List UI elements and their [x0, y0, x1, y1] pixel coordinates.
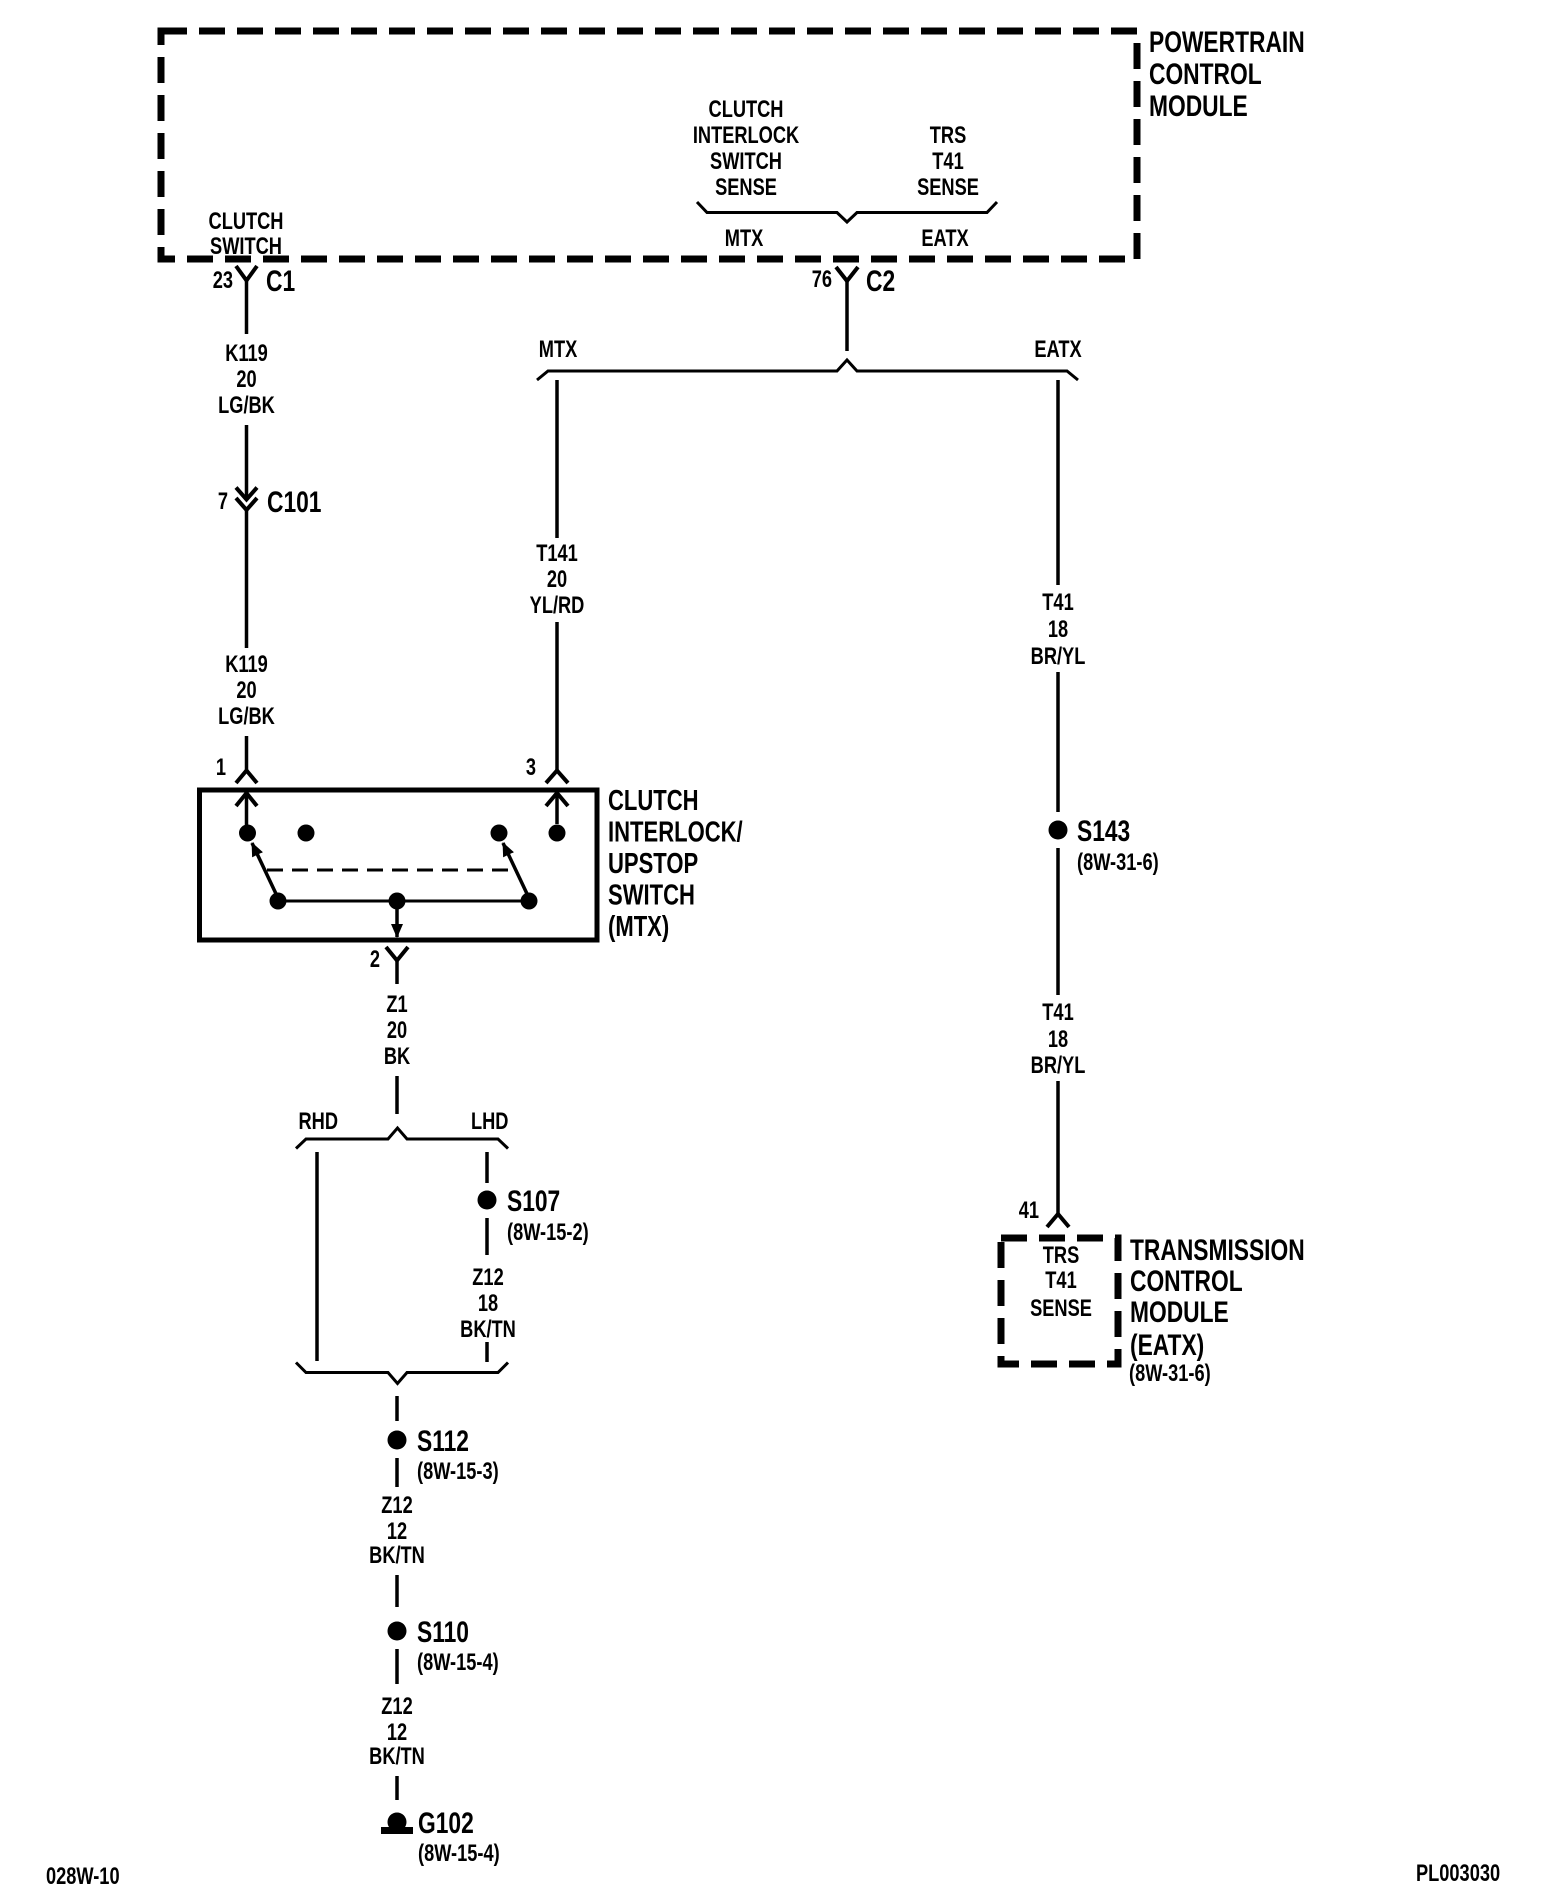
pin 3 female caret	[546, 771, 568, 784]
svg-text:BK/TN: BK/TN	[369, 1743, 425, 1770]
svg-text:(8W-15-2): (8W-15-2)	[507, 1219, 589, 1246]
svg-text:(MTX): (MTX)	[608, 911, 669, 943]
wire K119 to C101	[245, 425, 249, 500]
svg-text:1: 1	[216, 754, 226, 781]
svg-text:2: 2	[370, 946, 380, 973]
wiper arrow left	[252, 843, 278, 898]
wire label T141 20 YL/RD	[530, 540, 585, 619]
contact dot (right of center)	[491, 825, 508, 842]
svg-text:T141: T141	[536, 540, 578, 567]
splice S112	[388, 1431, 407, 1450]
wire pin 2 stem	[395, 961, 399, 985]
wire below S143	[1056, 848, 1060, 995]
svg-text:028W-10: 028W-10	[46, 1863, 120, 1890]
svg-text:K119: K119	[225, 340, 268, 367]
ground G102 symbol	[381, 1813, 413, 1832]
svg-text:20: 20	[236, 366, 256, 393]
svg-text:MODULE: MODULE	[1130, 1295, 1229, 1329]
svg-text:UPSTOP: UPSTOP	[608, 848, 698, 880]
pin 1 male caret inside box	[236, 793, 257, 806]
svg-text:Z12: Z12	[381, 1492, 412, 1519]
svg-text:C2: C2	[866, 264, 895, 298]
svg-text:76: 76	[812, 266, 832, 293]
svg-text:T41: T41	[932, 148, 964, 175]
contact dot pin3 side	[549, 825, 566, 842]
svg-text:(8W-31-6): (8W-31-6)	[1129, 1360, 1211, 1387]
svg-text:BK: BK	[384, 1043, 411, 1070]
wiper arrow right	[503, 843, 529, 898]
wire EATX branch upper	[1056, 380, 1060, 585]
svg-text:CONTROL: CONTROL	[1130, 1264, 1243, 1298]
svg-text:23: 23	[213, 267, 233, 294]
svg-text:LHD: LHD	[471, 1108, 508, 1135]
svg-text:3: 3	[526, 754, 536, 781]
rail junction dot center	[389, 893, 406, 910]
label POWERTRAIN CONTROL MODULE	[1149, 25, 1305, 123]
svg-text:Z12: Z12	[472, 1264, 503, 1291]
connector C2 fork	[836, 267, 858, 281]
pin 1 female caret	[236, 771, 257, 784]
svg-text:T41: T41	[1042, 999, 1074, 1026]
svg-text:12: 12	[387, 1719, 407, 1746]
svg-text:K119: K119	[225, 651, 268, 678]
wire below S110	[395, 1649, 399, 1684]
wire C1 stem	[245, 281, 249, 335]
svg-text:41: 41	[1019, 1197, 1039, 1224]
svg-text:BK/TN: BK/TN	[369, 1542, 425, 1569]
wire label T41 18 BR/YL (upper)	[1031, 589, 1086, 670]
splice S143	[1049, 821, 1068, 840]
svg-text:SWITCH: SWITCH	[210, 233, 282, 260]
module TRANSMISSION CONTROL MODULE dashed box	[1001, 1238, 1118, 1364]
svg-text:(8W-15-3): (8W-15-3)	[417, 1458, 499, 1485]
wire label Z12 12 BK/TN (upper)	[369, 1492, 425, 1569]
svg-text:MODULE: MODULE	[1149, 89, 1248, 123]
svg-text:LG/BK: LG/BK	[218, 392, 275, 419]
wire RHD branch	[315, 1152, 319, 1361]
output arrow down to pin 2	[395, 903, 399, 937]
label CLUTCH INTERLOCK SWITCH SENSE (PCM internal)	[693, 96, 800, 201]
wire pin 1 to contact	[245, 793, 249, 825]
svg-text:TRS: TRS	[1043, 1242, 1079, 1269]
component clutch interlock/upstop switch box	[200, 790, 598, 940]
svg-text:S110: S110	[417, 1615, 469, 1649]
svg-text:Z12: Z12	[381, 1693, 412, 1720]
svg-text:RHD: RHD	[299, 1108, 338, 1135]
label TRANSMISSION CONTROL MODULE (EATX)	[1130, 1233, 1305, 1362]
svg-text:EATX: EATX	[1034, 336, 1082, 363]
svg-text:S112: S112	[417, 1424, 469, 1458]
svg-text:EATX: EATX	[921, 225, 969, 252]
svg-text:BK/TN: BK/TN	[460, 1316, 516, 1343]
wire to TCM pin 41	[1056, 1081, 1060, 1214]
label CLUTCH SWITCH (PCM internal pin function)	[209, 208, 284, 260]
wire label T41 18 BR/YL (lower)	[1031, 999, 1086, 1079]
svg-text:PL003030: PL003030	[1416, 1860, 1500, 1887]
svg-text:(8W-31-6): (8W-31-6)	[1077, 849, 1159, 876]
svg-text:MTX: MTX	[725, 225, 764, 252]
wire Z1 to RHD/LHD split	[395, 1076, 399, 1114]
svg-text:18: 18	[478, 1290, 498, 1317]
wire MTX branch upper	[555, 380, 559, 538]
svg-text:INTERLOCK: INTERLOCK	[693, 122, 800, 149]
contact dot pin1 side	[239, 825, 256, 842]
connector C101 double chevron	[236, 488, 257, 511]
svg-text:POWERTRAIN: POWERTRAIN	[1149, 25, 1305, 59]
svg-text:BR/YL: BR/YL	[1031, 1052, 1086, 1079]
contact dot open (left-center)	[298, 825, 315, 842]
label TRS T41 SENSE (TCM internal)	[1030, 1242, 1092, 1322]
pin 2 fork below box	[386, 947, 408, 961]
wire label Z12 12 BK/TN (lower)	[369, 1693, 425, 1770]
svg-text:CLUTCH: CLUTCH	[608, 785, 699, 817]
wire MTX branch lower	[555, 622, 559, 771]
svg-text:MTX: MTX	[539, 336, 578, 363]
wire label Z12 18 BK/TN	[460, 1264, 516, 1343]
svg-text:G102: G102	[418, 1806, 474, 1840]
splice S107	[478, 1191, 497, 1210]
svg-text:12: 12	[387, 1518, 407, 1545]
wire pin 3 to contact	[555, 793, 559, 824]
svg-text:C101: C101	[267, 485, 322, 519]
svg-text:T41: T41	[1042, 589, 1074, 616]
svg-text:TRANSMISSION: TRANSMISSION	[1130, 1233, 1305, 1267]
pin 41 female caret	[1047, 1214, 1069, 1227]
svg-text:20: 20	[387, 1017, 407, 1044]
label CLUTCH INTERLOCK/ UPSTOP SWITCH (MTX)	[608, 785, 743, 943]
pin 3 male caret inside box	[546, 793, 568, 806]
svg-text:S107: S107	[507, 1184, 560, 1218]
module U1 POWERTRAIN CONTROL MODULE dashed box	[161, 31, 1137, 259]
label TRS T41 SENSE (PCM internal)	[917, 122, 979, 201]
switch common rail	[278, 900, 529, 903]
brace RHD/LHD merge	[296, 1363, 508, 1384]
wire below C101	[245, 510, 249, 648]
svg-text:LG/BK: LG/BK	[218, 703, 275, 730]
svg-text:20: 20	[236, 677, 256, 704]
svg-text:18: 18	[1048, 616, 1068, 643]
wire below S112	[395, 1458, 399, 1487]
splice S110	[388, 1622, 407, 1641]
svg-text:CLUTCH: CLUTCH	[209, 208, 284, 235]
mechanical coupling dashed line	[267, 869, 514, 872]
svg-text:SENSE: SENSE	[917, 174, 979, 201]
svg-text:SENSE: SENSE	[1030, 1295, 1092, 1322]
svg-text:C1: C1	[266, 264, 295, 298]
svg-text:(EATX): (EATX)	[1130, 1328, 1204, 1362]
svg-text:(8W-15-4): (8W-15-4)	[418, 1840, 500, 1867]
wire to S143	[1056, 672, 1060, 812]
wire label K119 20 LG/BK (upper)	[218, 340, 275, 419]
svg-text:BR/YL: BR/YL	[1031, 643, 1086, 670]
wire merge to S112	[395, 1396, 399, 1421]
svg-text:T41: T41	[1045, 1267, 1077, 1294]
wire LHD branch segment 1	[485, 1152, 489, 1183]
svg-text:18: 18	[1048, 1026, 1068, 1053]
svg-text:SWITCH: SWITCH	[710, 148, 782, 175]
brace MTX/EATX harness split	[537, 360, 1078, 380]
svg-text:CLUTCH: CLUTCH	[709, 96, 784, 123]
wire to S110	[395, 1575, 399, 1607]
svg-text:SWITCH: SWITCH	[608, 880, 695, 912]
wire C2 stem	[845, 281, 849, 351]
svg-text:TRS: TRS	[930, 122, 966, 149]
wire to switch pin 1	[245, 736, 249, 771]
rail junction dot right	[521, 893, 538, 910]
svg-text:CONTROL: CONTROL	[1149, 57, 1262, 91]
brace RHD/LHD split	[296, 1128, 508, 1149]
svg-text:INTERLOCK/: INTERLOCK/	[608, 817, 743, 849]
svg-text:SENSE: SENSE	[715, 174, 777, 201]
wire label Z1 20 BK	[384, 991, 411, 1070]
svg-text:20: 20	[547, 566, 567, 593]
wire LHD branch segment 2	[485, 1218, 489, 1255]
svg-text:S143: S143	[1077, 814, 1130, 848]
wire label K119 20 LG/BK (lower)	[218, 651, 275, 730]
wire LHD branch segment 3	[485, 1342, 489, 1362]
svg-text:7: 7	[218, 488, 228, 515]
svg-text:Z1: Z1	[386, 991, 407, 1018]
svg-text:YL/RD: YL/RD	[530, 592, 585, 619]
connector C1 fork	[236, 266, 257, 281]
brace collecting MTX/EATX sense functions to pin 76	[697, 202, 997, 222]
wire to ground G102	[395, 1776, 399, 1800]
svg-text:(8W-15-4): (8W-15-4)	[417, 1649, 499, 1676]
rail junction dot left	[270, 893, 287, 910]
